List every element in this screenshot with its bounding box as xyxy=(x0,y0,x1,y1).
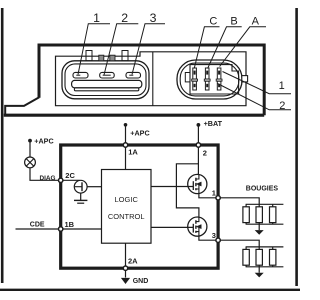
J1 latch tab right xyxy=(122,51,128,61)
svg-text:3: 3 xyxy=(212,231,216,240)
wire xyxy=(63,179,80,181)
wire to plugs group 1 xyxy=(220,198,259,205)
svg-text:C: C xyxy=(209,16,217,28)
module housing bottom edge xyxy=(4,114,264,117)
control unit boundary box xyxy=(61,145,218,268)
wire xyxy=(29,141,31,158)
svg-text:2A: 2A xyxy=(128,257,138,266)
ground xyxy=(80,193,82,200)
pin 3 xyxy=(216,238,220,242)
svg-text:+APC: +APC xyxy=(130,128,149,137)
leader key 2 xyxy=(218,84,292,110)
svg-text:3: 3 xyxy=(150,11,157,25)
pin 2A xyxy=(123,266,127,270)
J1 pin 2 slot xyxy=(100,72,115,78)
logic control block U1 xyxy=(102,170,152,244)
module housing outline xyxy=(39,45,264,115)
J2 right key tab xyxy=(242,76,248,82)
pin 1B xyxy=(59,227,63,231)
svg-text:+BAT: +BAT xyxy=(204,119,223,128)
page border bottom xyxy=(0,289,300,291)
page border left xyxy=(1,8,4,283)
page border right xyxy=(295,8,298,286)
leader pin 1 xyxy=(78,24,110,75)
J2 block left tab xyxy=(185,73,190,82)
svg-text:1: 1 xyxy=(212,188,216,197)
wire gate 1 xyxy=(151,186,193,188)
svg-text:CONTROL: CONTROL xyxy=(108,212,145,221)
J1 key bar lip xyxy=(74,88,138,91)
mounting bracket xyxy=(5,97,39,114)
J2 pin C xyxy=(192,68,198,90)
connector J2 shell outer xyxy=(177,60,242,99)
connector J1 shell inner xyxy=(65,64,146,96)
J2 pin block xyxy=(190,65,239,94)
driver transistor Q3 xyxy=(74,180,87,193)
J2 pin B xyxy=(204,68,210,90)
svg-text:2: 2 xyxy=(203,148,207,157)
leader pin C xyxy=(194,27,219,69)
pin 2C xyxy=(59,178,63,182)
pin 1 xyxy=(216,196,220,200)
leader pin 3 xyxy=(132,24,165,75)
J1 latch block 1 xyxy=(99,55,104,61)
wire xyxy=(197,125,199,175)
wire drain branch xyxy=(176,164,199,217)
wire to plugs group 2 xyxy=(220,240,259,247)
svg-text:DIAG: DIAG xyxy=(40,175,56,182)
svg-text:GND: GND xyxy=(133,278,149,285)
svg-text:2: 2 xyxy=(279,100,285,112)
svg-text:A: A xyxy=(252,16,260,28)
svg-text:BOUGIES: BOUGIES xyxy=(246,185,279,192)
glow plugs group 2 xyxy=(243,247,284,278)
svg-text:LOGIC: LOGIC xyxy=(115,195,139,204)
glow plugs group 1 xyxy=(243,204,284,235)
face inset panel xyxy=(56,52,247,106)
svg-text:CDE: CDE xyxy=(30,221,45,228)
+BAT terminal xyxy=(197,123,201,127)
wire xyxy=(87,186,101,188)
wire 2A xyxy=(125,243,127,277)
indicator lamp DIAG xyxy=(25,157,36,168)
svg-text:+APC: +APC xyxy=(34,136,53,145)
wire source 1 xyxy=(199,194,216,198)
svg-text:1: 1 xyxy=(279,80,285,92)
wire xyxy=(125,125,127,170)
J1 latch tab left xyxy=(86,51,92,61)
connector J1 shell outer xyxy=(62,61,149,99)
wire CDE xyxy=(16,228,102,230)
leader key 1 xyxy=(223,72,292,94)
+APC terminal mid xyxy=(124,123,128,127)
svg-text:2C: 2C xyxy=(65,171,75,180)
wire gate 2 xyxy=(151,226,193,228)
transistor Q1 xyxy=(188,174,207,193)
leader pin A xyxy=(220,27,266,67)
leader pin 2 xyxy=(104,24,138,75)
svg-text:1A: 1A xyxy=(128,147,138,156)
pin 2 xyxy=(196,143,200,147)
panel divider xyxy=(152,52,154,106)
J2 pin A xyxy=(216,68,222,90)
J1 pin 1 slot xyxy=(73,72,88,78)
wire xyxy=(30,168,59,181)
ground arrow GND xyxy=(121,278,130,284)
+APC terminal left xyxy=(28,139,32,143)
J1 pin 3 slot xyxy=(126,72,141,78)
J1 key bar xyxy=(72,80,142,87)
J1 latch block 2 xyxy=(110,55,115,61)
pin 1A xyxy=(123,143,127,147)
leader pin B xyxy=(208,27,242,69)
svg-text:B: B xyxy=(230,16,237,28)
wire source 2 xyxy=(199,236,216,240)
connector J2 shell inner xyxy=(180,63,239,96)
svg-text:1: 1 xyxy=(93,11,100,25)
transistor Q2 xyxy=(188,217,207,236)
svg-text:1B: 1B xyxy=(65,220,75,229)
svg-text:2: 2 xyxy=(121,11,128,25)
